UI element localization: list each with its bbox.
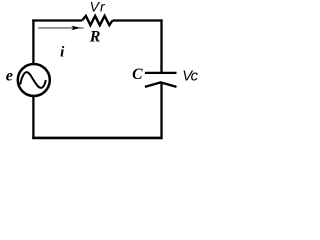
- capacitor C bottom plate (curved): [145, 82, 177, 87]
- resistor R: [82, 16, 113, 25]
- ac source e: [18, 64, 50, 96]
- wire bottom: [32, 137, 162, 140]
- svg-text:r: r: [100, 0, 106, 15]
- label e: [6, 66, 13, 85]
- current arrow i: [38, 26, 83, 31]
- wire top (left segment to resistor): [32, 19, 82, 21]
- svg-text:i: i: [60, 44, 65, 60]
- label R: [89, 28, 101, 45]
- wire capacitor to bottom: [160, 84, 162, 140]
- label Vr: [90, 0, 106, 15]
- wire left vertical (top): [32, 19, 34, 64]
- svg-text:R: R: [89, 28, 101, 45]
- svg-text:e: e: [6, 66, 13, 85]
- label i: [60, 44, 65, 60]
- svg-text:c: c: [191, 68, 199, 84]
- wire top (resistor to right corner): [113, 19, 163, 21]
- capacitor C top plate: [145, 72, 177, 74]
- wire left vertical (bottom): [32, 97, 34, 140]
- label Vc: [182, 68, 198, 84]
- svg-text:C: C: [132, 66, 143, 83]
- label C: [132, 66, 143, 83]
- wire right vertical (corner to capacitor): [160, 19, 162, 73]
- svg-text:V: V: [90, 0, 101, 15]
